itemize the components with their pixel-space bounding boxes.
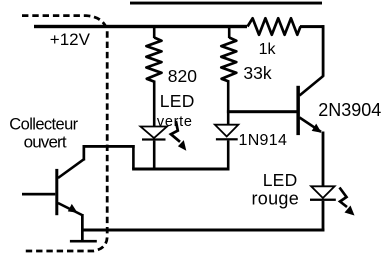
wire: 1N914 cathode (227, 140, 230, 169)
wire: 820 to LED verte (153, 81, 156, 128)
wire: top floating line (130, 2, 322, 5)
resistor R 1k (horizontal zigzag) (248, 18, 301, 35)
svg-text:1N914: 1N914 (239, 132, 288, 149)
wire: base branch to 2N3904 (227, 110, 297, 113)
wire: ground rail (bottom) (81, 229, 324, 232)
svg-text:LED: LED (160, 91, 195, 111)
svg-text:rouge: rouge (252, 188, 300, 208)
LED D1 verte (triangle + bar) (141, 127, 168, 139)
light arrow of LED rouge (340, 188, 355, 216)
wire: right vertical to collector (322, 25, 325, 76)
svg-text:LED: LED (263, 170, 298, 190)
svg-text:820: 820 (168, 66, 197, 86)
wire: left vertical down to middle rail (132, 145, 135, 169)
LED D3 rouge (triangle + bar) (311, 186, 335, 198)
wire: 33k to diode 1N914 (227, 81, 230, 127)
svg-text:1k: 1k (259, 41, 277, 58)
transistor Q1 2N3904 (296, 76, 323, 135)
svg-text:ouvert: ouvert (24, 132, 67, 151)
wire: LED verte cathode (153, 141, 156, 169)
wire: Q2 emitter vertical (81, 214, 84, 241)
transistor Q2 open collector (55, 159, 84, 215)
wire: Q2 collector horizontal (83, 145, 135, 148)
svg-text:2N3904: 2N3904 (318, 100, 381, 120)
light arrow of LED verte (171, 121, 186, 151)
wire: base stub of Q2 (22, 193, 55, 196)
wire: +12V rail (34, 25, 247, 28)
wire: emitter down to LED rouge (322, 132, 325, 187)
svg-text:Collecteur: Collecteur (9, 115, 78, 133)
wire: Q2 collector vertical (83, 146, 86, 161)
dashed module boundary (open-collector device outline) (22, 16, 107, 251)
resistor R 33k (vertical zigzag) (228, 28, 231, 38)
wire: middle rail (132, 168, 229, 171)
ground bar (70, 240, 97, 243)
wire: LED rouge cathode (322, 201, 325, 232)
svg-text:+12V: +12V (50, 30, 91, 49)
wire: rail right of 1k to corner (300, 25, 324, 28)
diode D2 1N914 (triangle + bar) (215, 125, 238, 137)
resistor R 820 (vertical zigzag) (153, 28, 156, 38)
svg-text:33k: 33k (243, 63, 271, 83)
